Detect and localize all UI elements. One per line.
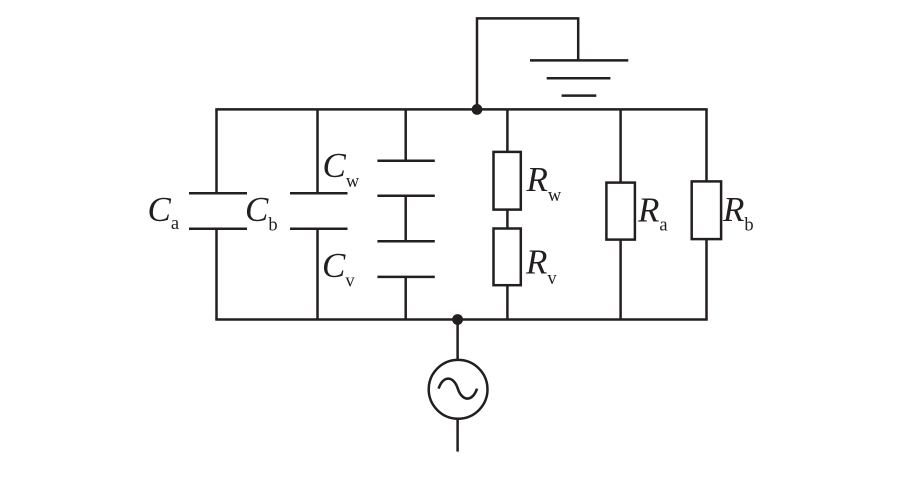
svg-text:Rv: Rv	[525, 243, 557, 289]
resistor Rw	[494, 109, 521, 209]
node A (top junction)	[472, 104, 483, 115]
wire ground riser	[477, 18, 578, 109]
ac source V1	[429, 360, 488, 419]
capacitor Cb	[290, 109, 348, 319]
svg-text:Cv: Cv	[322, 246, 355, 291]
svg-text:Ra: Ra	[637, 191, 668, 236]
svg-text:Rw: Rw	[526, 160, 562, 206]
ground	[530, 60, 628, 95]
wire bottom rail	[215, 318, 707, 321]
resistor Rb	[692, 109, 721, 319]
capacitor Cw	[377, 109, 434, 195]
wire source lead bottom	[456, 418, 459, 451]
resistor Ra	[606, 109, 635, 319]
svg-text:Ca: Ca	[148, 190, 180, 234]
svg-text:Cb: Cb	[245, 190, 278, 236]
svg-text:Rb: Rb	[722, 190, 754, 236]
wire top rail	[215, 108, 707, 111]
resistor Rv	[494, 210, 521, 320]
node B (bottom junction)	[452, 314, 463, 325]
wire source lead top	[456, 320, 459, 361]
capacitor Cv	[377, 196, 434, 320]
capacitor Ca	[189, 109, 247, 319]
svg-text:Cw: Cw	[323, 146, 360, 192]
